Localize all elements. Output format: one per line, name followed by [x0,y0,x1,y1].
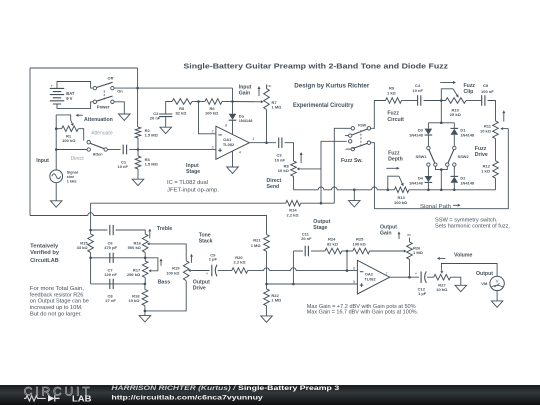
pot R19 100k output drive [183,261,189,281]
wire OA1 output row [249,142,276,144]
resistor R12 1k [493,161,499,179]
wire R16 wiper to R19 [152,244,186,261]
wire hop bus over rail A [318,187,324,190]
node mid rail junction [440,168,443,171]
node divider mid [137,148,140,151]
capacitor C2 20nF [159,114,172,117]
voltmeter VM circle [490,276,504,290]
wire R7 bottom lead [266,110,268,143]
wire OA2 output row [390,276,419,278]
wire divider to opamp noninverting input [138,148,216,150]
pot R17 wiper loop [145,258,158,271]
wire fuzz bus segment mid2 [337,189,372,191]
wire diode Do to pin8 [232,120,234,134]
switch FSW pole1 blade [352,129,367,135]
switch SW1 power pole1 left contact [93,86,96,89]
wire SSW1 right throw to mid rail [435,166,441,169]
node feedback junction [197,100,200,103]
wire fuzz bus segment mid1 [324,189,332,191]
switch FSW gang dashed link [360,130,362,148]
wire bus2 left segment [30,215,88,217]
annotation arrow treble [149,231,151,238]
pot R27 wiper arrow [440,265,442,271]
node mid rail at bus [440,189,443,192]
switch SSW1 throw left [427,163,430,166]
capacitor C8 27nF [110,279,113,289]
switch FSW pole2 blade [353,143,368,148]
circuitlab logo resistor-diode glyph [24,396,46,401]
switch FSW pole2 throw upper [349,140,352,143]
annotation arrow fuzz clip [440,82,453,84]
wire C2 top to bias row [166,102,172,115]
wire hop minus row under R21 rail [264,268,270,271]
wire bus1 right segment [301,202,335,204]
wire mid rail to bus [440,170,442,190]
ground on fuzz bus [349,201,361,207]
pot R1 wiper arrow [71,120,73,124]
pot R11 wiper arrow from signal path [503,128,508,130]
wire R9 to C4 [402,100,418,102]
switch SSW2 common [453,146,456,149]
capacitor C6 470pF [110,225,113,235]
node input rail junction [55,148,58,151]
wire diode network top bar [428,122,454,124]
resistor R2 1.5M [135,127,141,138]
wire minus row c [296,270,357,272]
node D2 at bus [453,189,456,192]
wire supply drop to bias row [232,88,234,101]
wire supply rail down to R2 [137,88,139,127]
wire tone row1 left [91,229,108,231]
resistor R3 1.5M [135,156,141,169]
op-amp OA1 TL082 [216,126,249,159]
wire R10 wiper loop [441,89,453,101]
wire R21 bottom rail to plus node [266,251,268,284]
wire SSW2 right throw to D2 [453,166,455,176]
wire bus2 to R21 [93,216,266,235]
annotation arrow fuzz drive [503,113,505,121]
wire bus ground stem [353,190,355,201]
switch FSW pole1 common [367,127,370,130]
resistor R14 2.2k [286,200,301,206]
wire D3 to SSW1 [427,135,429,146]
capacitor C7 120nF [110,253,113,263]
switch SSW1 common [427,146,430,149]
svg-text:HARRISON RICHTER (Kurtus) /: HARRISON RICHTER (Kurtus) / [111,385,236,392]
switch SSW2 throw left [446,163,449,166]
wire feedback to inverting input [199,102,216,134]
pot R7 1M [264,89,270,110]
annotation arrow signal path [453,204,458,206]
switch SSW1 throw right [434,163,437,166]
wire tone ground stem [144,311,146,316]
ground below OA1 [227,167,239,173]
wire plus row [267,283,358,285]
annotation arrow direct send [300,155,302,163]
wire input rail [55,115,57,169]
wire R26 nc stub [409,238,411,243]
op-amp OA2 minus sign [360,271,364,273]
node ground tee on bus [353,189,356,192]
ground below R27 [455,285,467,291]
resistor R24 82k [325,248,342,254]
wire R2 to R3 [137,138,139,156]
wire D3 top lead [427,123,429,129]
wire R10 to C5 [466,100,481,102]
resistor R18 10k [142,290,148,306]
battery BAT 9V [50,88,64,104]
pot R17 wiper arrow [151,270,152,272]
pot R27 10k volume [434,274,451,280]
wire D1 top lead [453,123,455,129]
wire tone row4 to R19 bottom [145,281,186,311]
wire minus row b [269,270,290,272]
wire R17 top stub [144,258,146,261]
switch SW2 atten blade [90,143,104,148]
node R7 bottom junction [265,141,268,144]
ground below R22 [261,316,273,322]
wire R26 bottom to output [409,259,411,277]
wire tone rail lower [90,258,92,284]
wire FSW pole1 common riser to fuzz row [371,101,386,129]
diode D3 1N4148 [425,129,433,135]
op-amp OA1 plus sign [218,148,222,152]
wire diode network riser [440,101,442,123]
node feedback at plus row [292,283,295,286]
pot R7 wiper arrow [233,101,261,103]
wire R8 bottom to fuzz bus [293,176,295,190]
capacitor C12 1uF [420,271,422,283]
wire bus1 left segment [91,202,286,204]
wire R1 right to atten switch [78,129,83,141]
op-amp OA2 TL082 [357,260,389,294]
wire C9 to R20 [218,270,232,272]
wire signal path [374,129,508,209]
wire rail A lower [320,188,322,203]
switch FSW pole1 nc stub [345,135,349,137]
wire battery negative to switch [57,102,93,109]
node fuzz row diode tap [440,99,443,102]
resistor R20 2.2k [232,268,248,274]
annotation arrow volume [440,257,446,259]
op-amp OA2 plus sign [360,283,364,287]
svg-text:LAB: LAB [72,394,92,403]
annotation arrow bass [160,261,162,265]
node D4 at bus [427,189,430,192]
wire R22 top stub [266,284,268,289]
node R26 bottom at output [408,276,411,279]
annotation arrow attenuation [78,114,82,116]
wire volume wiper to meter [441,264,497,277]
pot R10 wiper arrow [453,89,457,95]
node R1 left junction [55,127,58,130]
resistor R6 100k [205,99,222,105]
wire battery positive to switch [57,82,93,89]
wire atten common to C1 [107,149,120,151]
wire C11 to R24 [311,250,325,252]
wire meter to ground [496,291,498,301]
pot R8 wiper arrow [299,168,321,170]
wire power switch to ground [114,102,124,114]
switch FSW pole2 nc stub [346,148,351,150]
wire tone row1 right to R16 [116,230,146,234]
wire R18 bottom stub [144,306,146,311]
ground below tone stack [139,316,151,322]
capacitor C11 20nF [305,246,308,256]
wire R17 bottom stub [144,278,146,284]
wire R11 to R12 [495,139,497,161]
ground below power switch [119,114,131,120]
wire tone row3 [91,283,145,285]
wire R18 top stub [144,284,146,290]
capacitor C9 1uF [211,265,213,277]
wire tone rail [90,203,92,234]
capacitor C4 10nF [418,95,421,105]
wire C5 to R11 [488,101,496,121]
resistor R5 82k [172,99,192,105]
resistor R9 1k [386,98,402,104]
wire R6 to supply node [222,101,233,103]
wire R3 to ground [137,169,139,179]
wire R7 nc stub [266,85,268,89]
node supply diode junction [231,100,234,103]
wire hop bus over FSW rail [372,187,378,190]
resistor R1 100k [62,126,79,132]
svg-text:http://circuitlab.com/c6nca7vy: http://circuitlab.com/c6nca7vyunnuy [111,394,263,401]
wire fuzz bus segment left [294,189,319,191]
node tone rail row2 [89,257,92,260]
diode D2 1N4148 [451,175,459,177]
wire supply row from On switch [114,87,232,89]
wire feedback row to C11 [293,250,303,252]
wire rail B FSW throw to bus1 [334,128,351,203]
diode D1 1N4148 [451,127,459,129]
resistor R15 33k [88,234,94,253]
switch SW1 power pole2 left contact [93,100,96,103]
svg-text:Single-Battery Preamp 3: Single-Battery Preamp 3 [238,385,339,392]
wire OA1 pin4 to ground [232,151,234,167]
wire SSW2 left throw to mid rail [441,166,447,169]
switch SSW2 throw right [453,163,456,166]
wire rail A direct-send to FSW [321,141,347,188]
switch SW2 atten common [104,148,107,151]
wire fuzz bus segment mid3 [377,189,394,191]
diode D4 1N4148 [425,176,433,182]
switch SW1 power pole1 blade [96,82,112,87]
resistor R21 1M [264,235,270,252]
switch SW2 atten bottom throw [87,148,90,151]
capacitor C3 10nF [279,138,282,148]
wire R27 to ground [451,277,461,285]
pot R8 10k [291,161,297,176]
wire fuzz bus segment right [409,189,496,191]
node tone rail row1 [89,229,92,232]
switch SW1 power pole2 right contact [111,100,114,103]
annotation arrow output drive [191,257,193,263]
pot R19 wiper arrow [191,270,193,272]
wire hop minus row under feedback rail [291,268,297,271]
resistor R25 100k [353,248,370,254]
wire R24 to R25 [342,250,353,252]
pot R13 wiper loop [388,176,399,190]
wire feedback rail [292,251,294,284]
wire hop bus over rail B [332,187,338,190]
wire R22 to ground [266,306,268,316]
resistor R22 1M [264,289,270,306]
wire source to ground [55,183,57,201]
annotation arrow input gain [258,89,260,96]
diode Do 1N4148 [229,114,237,120]
switch SW1 gang dashed link [103,91,105,100]
node tone ground junction [144,310,147,313]
node diode top bar junction [440,122,443,125]
wire R16 bottom stub [144,252,146,257]
footer bar [0,385,540,405]
signal source VS circle [50,170,63,183]
signal source sine wave [52,174,61,179]
wire outer box top edge to supply rail [30,67,138,69]
pot R16 500k treble [142,234,148,253]
node row3 right junction [144,283,147,286]
wire input to atten switch [56,149,87,151]
node minus row feedback tap [346,269,349,272]
ground below C2 [160,127,172,133]
annotation arrow output gain [398,234,400,239]
capacitor C5 100nF [482,95,485,105]
ground below R3 [132,179,144,185]
switch FSW pole1 throw lower [349,134,352,137]
wire R20 to minus row a [248,270,264,272]
switch FSW pole2 common [367,141,370,144]
pot R13 100k [394,187,409,193]
wire C12 to R27 [427,276,434,278]
wire C2 bottom to ground [165,117,167,128]
wire R12 to fuzz bus [495,178,497,190]
node row2 right junction [144,257,147,260]
wire supply rail upper segment [137,68,139,88]
wire FSW pole2 common to signal path [371,143,375,209]
wire diode Do top lead [232,102,234,114]
wire D4 to bus [427,182,429,189]
wire SSW1 left throw to D4 [427,166,429,176]
node rail A joins bus1 [320,202,323,205]
op-amp OA1 minus sign [218,134,222,136]
capacitor C1 10nF [123,145,126,155]
switch SSW1 blade [429,150,435,163]
switch SW1 power pole1 right contact (On) [111,86,114,89]
pot R10 25k [446,98,466,104]
pot R26 wiper arrow [370,250,404,252]
node plus row left [265,283,268,286]
switch SSW2 blade [448,150,454,163]
ground below voltmeter [491,301,503,307]
wire R5 to R6 [192,101,205,103]
pot R16 wiper arrow [150,243,153,245]
wire R19 wiper to C9 [193,270,210,272]
wire D2 to bus [453,183,455,190]
pot R26 1M output gain [407,242,413,259]
wire D1 to SSW2 [453,135,455,147]
wire tone row2 [91,257,146,259]
wire R1 wiper return loop [56,115,70,120]
node feedback mid junction [346,250,349,253]
wire R1 left stub [56,128,61,130]
ground below signal source [50,201,62,207]
node R13 left junction [387,189,390,192]
switch SW2 atten top throw [87,141,90,144]
pot R17 250k bass [142,261,148,278]
wire R15 bottom stub [90,252,92,257]
pot R11 10k [493,121,499,139]
switch FSW pole1 throw upper [351,127,354,130]
switch SW1 power pole2 blade [96,96,112,101]
wire feedback mid to minus row [346,251,348,271]
wire C1 to divider [129,149,138,151]
wire C4 to R10 [424,100,446,102]
wire outer box left edge [29,68,31,216]
annotation arrow fuzz depth [386,167,396,169]
pot R13 wiper arrow [399,176,402,183]
switch FSW pole2 throw lower [351,147,354,150]
node supply junction at rail [136,87,139,90]
wire hop bus2 over tone rail [88,213,94,216]
wire C3 to R8 [285,143,294,161]
